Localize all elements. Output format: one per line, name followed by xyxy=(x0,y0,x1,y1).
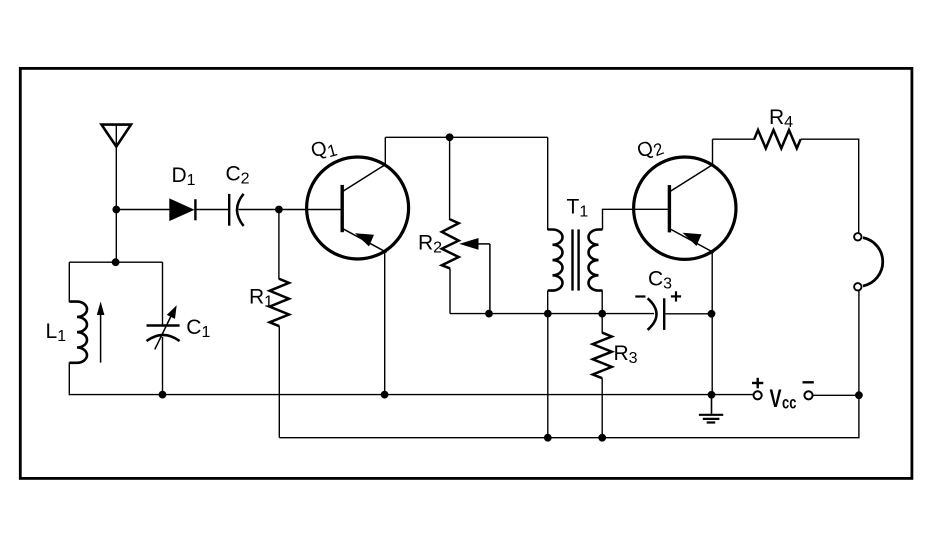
wire T1 secondary top to Q2 base xyxy=(603,209,670,229)
svg-text:cc: cc xyxy=(782,394,797,414)
wire tank top xyxy=(69,261,162,263)
node T1 secondary / R3 / C3 junction xyxy=(598,310,606,318)
node T1 primary / rail2 xyxy=(544,434,552,442)
wire T1 primary bottom to rail2 xyxy=(547,314,549,438)
node Q1 emitter / rail1 xyxy=(381,391,389,399)
wire R2 bottom lead xyxy=(449,268,451,313)
resistor R1 xyxy=(249,279,289,326)
node Q2 emitter / rail1 / ground xyxy=(708,391,716,399)
wire R4 to earphone corner xyxy=(801,139,859,233)
Vcc terminals xyxy=(752,378,814,413)
transistor Q1 xyxy=(307,135,409,259)
wire top rail Q2 collector to R4 xyxy=(713,138,756,140)
wire R3 bottom to rail2 xyxy=(601,378,603,438)
transformer T1 xyxy=(548,137,603,313)
svg-text:V: V xyxy=(770,384,782,413)
node antenna/tank junction xyxy=(112,258,120,266)
wire earphone bottom down to rail xyxy=(858,291,860,396)
wire top rail Q1 collector to T1 primary xyxy=(385,136,547,138)
wire Q2 emitter down to ground xyxy=(711,252,713,395)
node C3 / Q2 emitter junction xyxy=(708,310,716,318)
capacitor C3 xyxy=(635,268,681,330)
node T1 primary bottom xyxy=(544,310,552,318)
wire rail1 (+ supply rail) xyxy=(69,394,753,396)
wire tank left upper xyxy=(68,262,70,302)
potentiometer R2 xyxy=(418,219,490,313)
resistor R3 xyxy=(593,314,638,379)
node tank bottom / rail1 xyxy=(159,391,167,399)
wire tank left lower xyxy=(68,362,70,395)
node collector rail / R2 junction xyxy=(446,133,454,141)
capacitor C1 (variable) xyxy=(147,305,211,349)
transistor Q2 xyxy=(634,133,736,259)
wire antenna to D1 xyxy=(116,209,170,211)
wire Q1 collector riser xyxy=(384,137,386,165)
node earphone / Vcc minus xyxy=(855,391,863,399)
wire C3 to Q2 emitter xyxy=(665,313,712,315)
inductor L1 xyxy=(46,302,88,363)
wire C2 to Q1 base xyxy=(239,209,343,211)
wire Q1 emitter riser xyxy=(384,251,386,394)
earphone xyxy=(854,233,883,290)
node antenna/D1 junction xyxy=(112,206,120,214)
node R2 wiper junction xyxy=(485,310,493,318)
node R3 / rail2 xyxy=(598,434,606,442)
ground xyxy=(699,395,723,423)
wire Vcc minus to earphone node xyxy=(813,394,859,396)
arrow up beside L1 xyxy=(97,302,105,363)
wire T1 secondary bottom xyxy=(601,291,603,314)
wire C1 bottom lead xyxy=(162,337,164,395)
antenna xyxy=(102,125,132,147)
wire D1 to C2 xyxy=(197,209,229,211)
diode D1 xyxy=(170,164,196,221)
wire Q2 collector riser xyxy=(712,139,714,165)
wire R1 bottom to rail2 xyxy=(278,326,280,438)
capacitor C2 xyxy=(226,162,250,226)
wire tank right upper (C1 top lead) xyxy=(162,262,164,325)
wire R2 top lead xyxy=(449,137,451,220)
wire rail2 (bottom return rail) xyxy=(279,395,859,438)
node C2/R1/Q1 junction xyxy=(275,206,283,214)
wire bus at y=313.6 (R2 to C3) xyxy=(450,313,654,315)
wire junction down to R1 xyxy=(278,210,280,280)
wire antenna stem down to tank xyxy=(115,147,117,263)
resistor R4 xyxy=(754,106,800,148)
